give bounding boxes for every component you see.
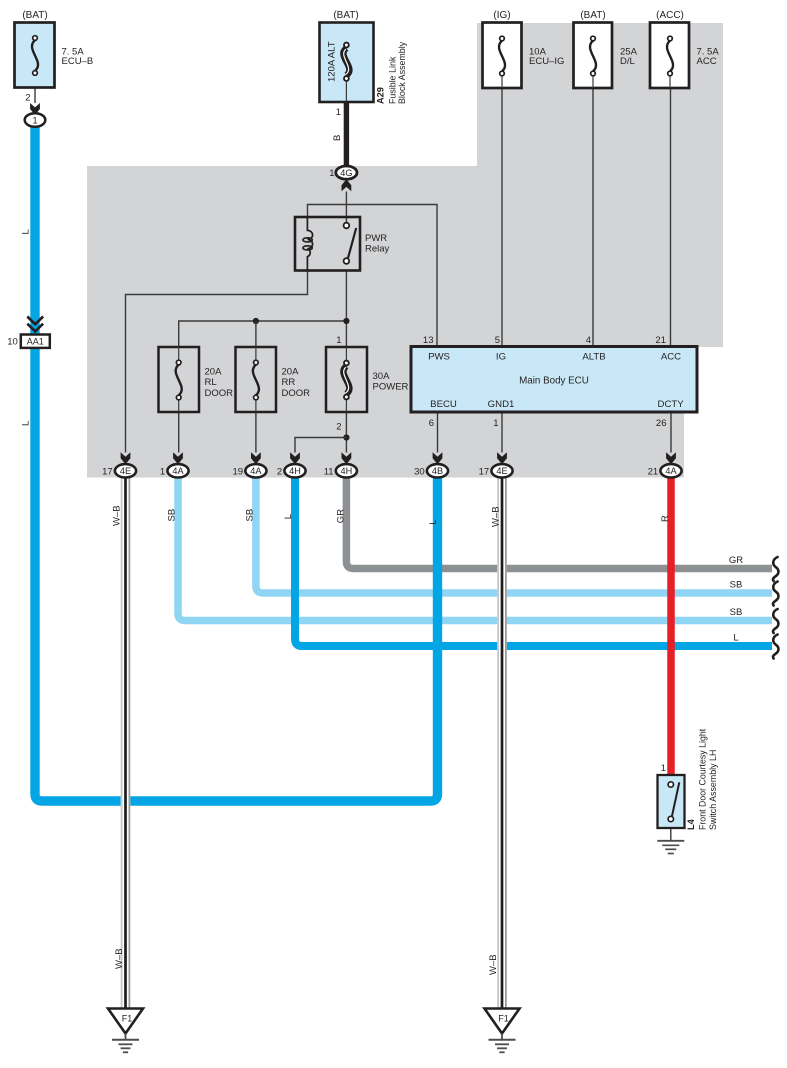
connector 4H pin 2 [284,464,305,477]
relay switch [348,228,356,258]
svg-text:Main Body ECU: Main Body ECU [519,376,589,387]
wire L from connector 4H pin 2 to right edge [295,477,772,646]
wire continuation mark at y=620.5 [773,609,779,633]
fuse 10A ECU-IG [483,23,522,89]
svg-text:1: 1 [32,115,37,125]
svg-text:SB: SB [730,580,743,591]
svg-text:AA1: AA1 [27,337,44,347]
svg-text:A29: A29 [376,87,386,104]
svg-text:F1: F1 [122,1014,133,1024]
svg-text:19: 19 [233,466,244,477]
svg-text:11: 11 [324,466,334,477]
wire: ECU-B fuse to connector 1 [34,88,36,104]
svg-text:PWR: PWR [365,233,387,244]
svg-text:R: R [660,515,671,522]
svg-text:PWS: PWS [428,352,450,363]
svg-text:20A: 20A [205,367,223,378]
svg-text:4G: 4G [340,168,352,178]
svg-text:2: 2 [277,466,282,477]
svg-text:L4: L4 [686,818,696,830]
wire: ACC fuse to ECU ACC pin 21 [670,88,672,347]
Main Body ECU [411,347,697,413]
arrow into connector 4A pin 1 [173,452,183,464]
svg-text:2: 2 [336,422,341,433]
ground F1 (left) [108,1009,143,1034]
svg-text:4A: 4A [172,466,184,476]
svg-text:30: 30 [414,466,425,477]
svg-text:(BAT): (BAT) [580,10,605,21]
wire: branch to connector 4H pin 2 [295,438,346,453]
svg-text:ALTB: ALTB [582,352,605,363]
wire: relay coil top to ECU PWS pin 13 [308,205,438,347]
connector 4A pin 1 [167,464,188,477]
wire: RL DOOR fuse to connector 4A pin 1 [178,412,180,453]
svg-text:W–B: W–B [114,948,125,969]
wire continuation mark at y=646 [773,635,779,659]
svg-text:6: 6 [429,418,434,429]
svg-text:GR: GR [729,555,743,566]
svg-text:F1: F1 [498,1014,509,1024]
svg-text:BECU: BECU [430,399,457,410]
wire: D/L fuse to ECU ALTB pin 4 [592,88,594,347]
svg-text:30A: 30A [373,371,391,382]
arrow into connector 4E pin 17 [497,452,507,464]
svg-text:ACC: ACC [697,56,717,67]
svg-text:B: B [332,135,343,141]
svg-text:13: 13 [423,335,434,346]
svg-text:(ACC): (ACC) [656,10,684,21]
svg-text:Block Assembly: Block Assembly [397,41,407,104]
svg-text:RR: RR [282,377,296,388]
svg-text:D/L: D/L [620,56,635,67]
svg-text:4A: 4A [665,466,677,476]
switch L4 Front Door Courtesy Light Switch Assembly LH [658,775,685,828]
svg-text:L: L [428,519,439,524]
svg-text:(IG): (IG) [493,10,510,21]
wire continuation mark at y=568.5 [773,557,779,581]
svg-text:1: 1 [661,763,666,774]
svg-text:GND1: GND1 [488,399,515,410]
svg-text:IG: IG [496,352,506,363]
wire R from connector 4A pin 21 to courtesy light switch [667,477,675,777]
svg-text:4A: 4A [250,466,262,476]
svg-text:W–B: W–B [112,505,123,526]
svg-text:ECU–B: ECU–B [62,56,94,67]
junction dot below POWER fuse [343,434,349,440]
gray harness background [87,23,723,478]
svg-text:L: L [21,421,32,426]
wire: ECU GND1 pin 1 to connector 4E pin 17 [501,412,503,453]
svg-text:4: 4 [586,335,591,346]
svg-text:L: L [21,229,32,234]
arrow into connector 4H pin 11 [342,452,352,464]
arrow into connector 4H pin 2 [290,452,300,464]
arrow into connector 1 [30,103,40,115]
arrow into connector 4A pin 19 [251,452,261,464]
svg-text:ACC: ACC [661,352,681,363]
svg-text:Front Door Courtesy Light: Front Door Courtesy Light [698,728,708,830]
connector 4A pin 19 [245,464,266,477]
fusible link 30A POWER [326,347,367,412]
svg-text:4B: 4B [432,466,443,476]
fuse 25A D/L [574,23,613,89]
wire: IG fuse to ECU IG pin 5 [501,88,503,347]
wire: 30A POWER fuse to connector 4H pin 11 [345,412,347,453]
arrow into connector 4E pin 17 [121,452,131,464]
wire B: fusible link A29 to connector 4G (thick black) [344,101,349,167]
fuse 7.5A ACC [650,23,689,89]
connector 4B pin 30 [427,464,448,477]
svg-text:(BAT): (BAT) [22,10,47,21]
svg-text:Switch Assembly LH: Switch Assembly LH [708,750,718,830]
svg-text:1: 1 [336,107,341,118]
svg-text:DOOR: DOOR [205,388,234,399]
fusible link 120A ALT (A29 Fusible Link Block Assembly) [320,23,374,103]
svg-text:L: L [733,633,738,644]
fuse 20A RR DOOR [236,347,277,412]
junction dot at relay output [343,318,349,324]
wire W-B #1: white with black stripe, from connector 4E to ground F1 [121,477,131,1009]
ground F1 (right) [485,1009,520,1034]
svg-text:20A: 20A [282,367,300,378]
svg-text:10: 10 [7,337,18,348]
svg-text:DOOR: DOOR [282,388,311,399]
svg-text:120A ALT: 120A ALT [327,41,338,82]
svg-text:17: 17 [102,466,113,477]
wire W-B #2: white with black stripe, from connector 4E to ground F1 [497,477,507,1009]
svg-text:2: 2 [25,93,30,104]
connector 1 [25,113,46,127]
wire: relay coil bottom to connector 4E pin 17 [126,271,308,453]
wire: RR DOOR fuse to connector 4A pin 19 [255,412,257,453]
junction dot at RR DOOR branch [253,318,259,324]
svg-text:DCTY: DCTY [658,399,685,410]
wire continuation mark at y=593 [773,582,779,606]
svg-text:(BAT): (BAT) [333,10,358,21]
svg-text:1: 1 [160,466,165,477]
svg-text:1: 1 [336,335,341,346]
wire GR from connector 4H pin 11 to right edge [346,477,772,569]
arrow into connector 4A pin 21 [666,452,676,464]
wire: ECU BECU pin 6 to connector 4B pin 30 [437,412,439,453]
fuse 20A RL DOOR [159,347,200,412]
wire L main: from connector 1 at top left, down, right, up to connector 4B pin 30 [35,127,438,802]
wire: relay switch output down to 30A POWER fuse [345,271,347,348]
connector 4E pin 17 [491,464,512,477]
wire: connector 4G to PWR relay contact [345,192,347,226]
svg-text:5: 5 [495,335,500,346]
svg-text:21: 21 [655,335,666,346]
svg-text:4E: 4E [496,466,507,476]
svg-text:ECU–IG: ECU–IG [529,56,564,67]
arrow into connector 4B pin 30 [433,452,443,464]
svg-text:L: L [283,514,294,519]
svg-text:Fusible Link: Fusible Link [388,56,398,104]
svg-text:RL: RL [205,377,217,388]
wire: ECU DCTY pin 26 to connector 4A pin 21 [670,412,672,453]
svg-text:POWER: POWER [373,382,409,393]
connector 4A pin 21 [660,464,681,477]
svg-text:SB: SB [167,509,178,522]
wire: RR DOOR fuse feed [255,321,257,347]
svg-text:W–B: W–B [490,506,501,527]
connector AA1 on wire L [27,317,43,332]
wire SB from connector 4A pin 1 to right edge [178,477,772,621]
svg-text:26: 26 [656,418,667,429]
fuse 7.5A ECU-B [15,23,55,88]
wire: courtesy switch to ground [670,828,672,841]
svg-text:SB: SB [730,607,743,618]
PWR relay [295,217,360,271]
ground below courtesy switch [657,840,684,842]
svg-text:GR: GR [336,509,347,523]
svg-text:1: 1 [493,418,498,429]
wire: branch to RL DOOR and RR DOOR fuses [179,321,347,347]
connector 4H pin 11 [336,464,357,477]
svg-text:17: 17 [479,466,490,477]
svg-text:4H: 4H [289,466,301,476]
wire SB from connector 4A pin 19 to right edge [256,477,772,593]
relay coil [307,217,312,271]
svg-text:SB: SB [245,509,256,522]
svg-text:1: 1 [329,168,334,179]
svg-text:4E: 4E [120,466,131,476]
svg-text:21: 21 [648,466,659,477]
svg-text:4H: 4H [341,466,353,476]
arrow up into connector 4G [342,179,352,191]
svg-text:W–B: W–B [488,954,499,975]
connector 4E pin 17 [115,464,136,477]
svg-text:Relay: Relay [365,244,390,255]
